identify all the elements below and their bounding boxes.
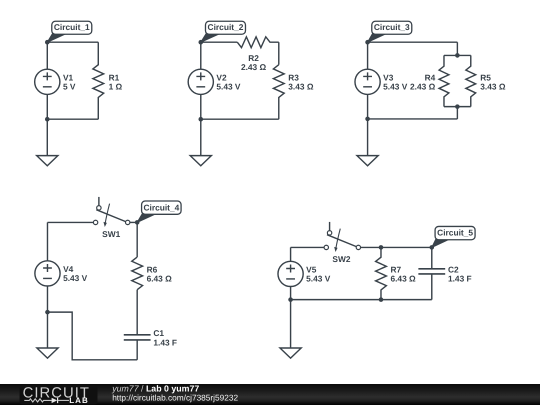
- node circuit 4 top: [135, 220, 140, 225]
- node circuit 5 bottom left: [288, 297, 293, 302]
- wire V4 to switch: [47, 221, 93, 223]
- callout Circuit_4: [137, 213, 158, 223]
- resistor R7: [376, 247, 387, 299]
- wire C1 bottom lead: [136, 340, 138, 360]
- logo diode: [52, 398, 58, 403]
- wire V2 bottom lead: [200, 94, 202, 119]
- logo well: [20, 386, 98, 405]
- wire bottom rail circuit 1: [47, 118, 98, 120]
- wire return right: [456, 107, 458, 119]
- svg-text:1.43 F: 1.43 F: [153, 338, 177, 348]
- wire V1 top lead: [46, 42, 48, 69]
- wire V3 bottom lead: [367, 94, 369, 119]
- node circuit 1 bottom: [45, 117, 50, 122]
- wire R7 node to C2 node: [381, 246, 432, 248]
- ground circuit 5: [280, 348, 301, 358]
- resistor R1: [93, 42, 104, 119]
- wire bottom rail circuit 2: [201, 118, 279, 120]
- wire switch to node: [130, 221, 137, 223]
- svg-text:1 Ω: 1 Ω: [109, 81, 123, 91]
- voltage source V1: [35, 69, 60, 94]
- wire right side circuit 2: [278, 42, 280, 65]
- callout Circuit_3: [368, 33, 389, 43]
- svg-text:5.43 V: 5.43 V: [306, 274, 331, 284]
- wire V3 top lead: [367, 42, 369, 69]
- wire top rail circuit 2: [201, 41, 238, 43]
- svg-text:SW1: SW1: [102, 229, 120, 239]
- svg-text:http://circuitlab.com/cj7385rj: http://circuitlab.com/cj7385rj59232: [112, 393, 238, 403]
- svg-text:Circuit_3: Circuit_3: [374, 22, 410, 32]
- svg-text:2.43 Ω: 2.43 Ω: [410, 81, 436, 91]
- svg-text:LAB: LAB: [69, 396, 89, 405]
- resistor R2: [237, 37, 279, 48]
- callout Circuit_1: [47, 33, 68, 43]
- svg-text:5.43 V: 5.43 V: [63, 273, 88, 283]
- svg-text:5.43 V: 5.43 V: [216, 81, 241, 91]
- footer bar: [0, 384, 540, 405]
- voltage source V3: [355, 69, 380, 94]
- logo resistor squiggle: [24, 399, 51, 402]
- node parallel top: [455, 53, 460, 58]
- wire to ground circuit 2: [200, 119, 202, 155]
- callout Circuit_2: [201, 33, 222, 43]
- wire V5 bottom lead: [290, 287, 292, 349]
- node circuit 2 top: [198, 40, 203, 45]
- node C2 top: [429, 245, 434, 250]
- wire bottom rail circuit 5: [291, 299, 432, 301]
- switch SW1: [98, 197, 100, 206]
- svg-text:6.43 Ω: 6.43 Ω: [390, 273, 416, 283]
- wire bottom run circuit 4: [47, 312, 137, 360]
- svg-text:1.43 F: 1.43 F: [448, 274, 472, 284]
- wire R6 to C1: [136, 290, 138, 335]
- wire parallel top rail: [444, 54, 471, 56]
- wire V2 top lead: [200, 42, 202, 69]
- node circuit 2 bottom: [198, 117, 203, 122]
- capacitor C1: [124, 335, 151, 340]
- svg-text:5 V: 5 V: [63, 81, 76, 91]
- node R7 top: [379, 245, 384, 250]
- node circuit 3 bottom: [365, 117, 370, 122]
- wire C2 bottom lead: [431, 274, 433, 300]
- voltage source V4: [35, 261, 60, 286]
- wire V4 top lead: [46, 222, 48, 261]
- resistor R5: [466, 55, 476, 106]
- wire down to parallel pair: [456, 42, 458, 55]
- ground circuit 4: [37, 348, 58, 358]
- node circuit 4 return: [45, 310, 50, 315]
- resistor R6: [132, 257, 143, 290]
- node circuit 3 top: [365, 40, 370, 45]
- ground circuit 2: [190, 156, 211, 166]
- callout Circuit_5: [432, 238, 452, 247]
- svg-text:6.43 Ω: 6.43 Ω: [147, 273, 173, 283]
- resistor R4: [439, 55, 449, 106]
- voltage source V2: [188, 69, 213, 94]
- ground circuit 1: [37, 156, 58, 166]
- wire V4 bottom lead: [46, 286, 48, 348]
- wire top rail circuit 3: [368, 41, 458, 43]
- node parallel bottom: [455, 104, 460, 109]
- wire parallel bottom rail: [444, 106, 471, 108]
- svg-text:Circuit_4: Circuit_4: [143, 202, 179, 212]
- wire switch to R7 node: [361, 246, 381, 248]
- schematic group: [35, 21, 506, 360]
- wire V5 top lead: [290, 247, 292, 261]
- svg-text:C1: C1: [153, 328, 164, 338]
- ground circuit 3: [357, 156, 378, 166]
- svg-text:2.43 Ω: 2.43 Ω: [241, 62, 267, 72]
- node circuit 1 top: [45, 40, 50, 45]
- voltage source V5: [278, 261, 303, 286]
- wire to ground circuit 1: [46, 119, 48, 155]
- wire C2 top lead: [431, 247, 433, 268]
- svg-text:5.43 V: 5.43 V: [383, 81, 408, 91]
- wire top rail circuit 1: [47, 41, 98, 43]
- svg-text:Circuit_1: Circuit_1: [54, 22, 90, 32]
- capacitor C2: [418, 269, 445, 274]
- wire V1 bottom lead: [46, 94, 48, 119]
- wire to ground circuit 3: [367, 119, 369, 156]
- svg-text:SW2: SW2: [332, 254, 350, 264]
- svg-text:Circuit_2: Circuit_2: [208, 22, 244, 32]
- wire V5 to switch: [291, 246, 325, 248]
- switch SW2: [329, 222, 331, 231]
- wire return bottom: [368, 118, 458, 120]
- svg-text:3.43 Ω: 3.43 Ω: [480, 81, 506, 91]
- resistor R3: [273, 65, 284, 120]
- wire node to R6: [136, 222, 138, 257]
- svg-text:Circuit_5: Circuit_5: [437, 228, 473, 238]
- node R7 bottom: [379, 297, 384, 302]
- svg-text:3.43 Ω: 3.43 Ω: [288, 81, 314, 91]
